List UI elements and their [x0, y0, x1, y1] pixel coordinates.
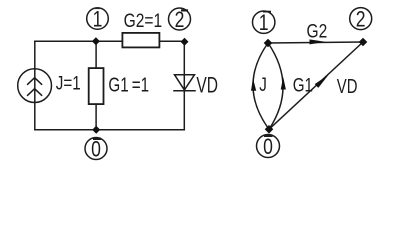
- node 2 label circle (graph): [350, 8, 372, 32]
- svg-text:2: 2: [175, 8, 185, 32]
- node circle top chord L1: [94, 7, 101, 9]
- svg-text:J=1: J=1: [56, 72, 81, 94]
- wire bottom: [35, 129, 185, 131]
- arrow on edge G2: [310, 39, 326, 44]
- node circle top chord R0: [264, 135, 273, 137]
- vertex 0 dot (graph): [265, 125, 274, 134]
- node 0 label circle (graph): [257, 135, 280, 160]
- node 1 label circle (graph): [253, 11, 275, 36]
- node circle top chord L2: [181, 9, 188, 11]
- edge G1 (graph, right arc): [268, 43, 283, 129]
- svg-text:0: 0: [91, 138, 101, 162]
- svg-text:1: 1: [259, 11, 269, 35]
- svg-text:G2: G2: [307, 20, 328, 42]
- svg-text:0: 0: [263, 135, 273, 159]
- node circle top chord L0: [93, 138, 101, 140]
- edge J (graph, left arc): [253, 43, 269, 129]
- node 0 label circle (circuit): [85, 138, 107, 162]
- node 1 label circle (circuit): [87, 8, 109, 32]
- vertex 2 dot (graph): [359, 38, 368, 47]
- svg-text:2: 2: [356, 8, 366, 32]
- wire G1 branch: [95, 41, 97, 129]
- svg-text:VD: VD: [337, 75, 358, 98]
- resistor G2: [122, 33, 159, 48]
- svg-text:1: 1: [93, 8, 103, 32]
- wire left branch: [34, 41, 36, 129]
- edge VD (graph, diagonal): [269, 42, 363, 129]
- wire right branch: [183, 41, 185, 129]
- svg-text:G1 =1: G1 =1: [108, 73, 149, 96]
- arrow on edge VD: [315, 75, 329, 88]
- vertex 1 dot (graph): [264, 39, 273, 48]
- svg-text:VD: VD: [196, 73, 218, 99]
- resistor G1: [89, 68, 104, 104]
- svg-text:G1: G1: [293, 74, 313, 96]
- diode VD: [174, 75, 195, 91]
- edge G2 (graph): [268, 42, 363, 43]
- node 2 label circle (circuit): [169, 8, 191, 32]
- junction node 2 dot: [181, 38, 189, 46]
- current source J1: [18, 69, 52, 103]
- wire top right segment: [159, 40, 184, 42]
- svg-text:J: J: [259, 73, 267, 95]
- node circle top chord R1: [263, 11, 271, 13]
- svg-text:G2=1: G2=1: [124, 10, 163, 32]
- junction node 0 dot: [92, 126, 100, 134]
- wire top left segment: [35, 40, 123, 42]
- arrow on edge J: [251, 78, 256, 90]
- junction node 1 dot: [92, 37, 100, 45]
- arrow on edge G1: [281, 77, 286, 90]
